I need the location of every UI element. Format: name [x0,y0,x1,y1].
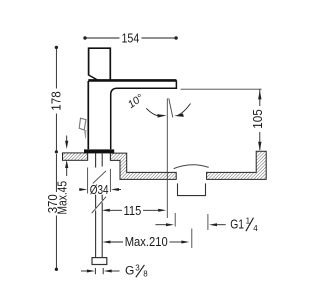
dim 178 [49,46,63,151]
svg-text:G: G [125,264,134,278]
dim G 3/8 (supply) [81,263,148,278]
faucet body and spout [88,80,176,149]
svg-text:Ø34: Ø34 [90,183,109,197]
dim 115 [102,204,166,218]
svg-text:Max.45: Max.45 [56,181,70,215]
dim 154 [83,32,178,46]
dim G1 1/4 (drain) [155,213,258,233]
dim Max.45 [56,136,70,215]
svg-text:3: 3 [135,263,140,272]
dim 370 [46,150,60,271]
svg-text:105: 105 [251,109,265,129]
stream centerline [166,98,168,218]
countertop left slab [63,153,88,160]
svg-text:G1: G1 [230,218,244,232]
mounting hole edges [87,153,89,160]
faucet handle [89,48,111,81]
10 degree label and arc arrows [126,92,191,118]
pipe break slash 1 [93,171,106,184]
svg-text:154: 154 [122,32,140,46]
basin bottom right + right wall [207,151,267,179]
side lever detail (gray) [79,118,86,138]
svg-text:4: 4 [253,224,258,233]
countertop right step (basin left side) [110,153,176,179]
dim Max.210 [102,229,191,250]
dim 105 [181,89,266,151]
drain pop-up dome [174,165,209,169]
drain tailpiece [178,183,206,195]
dim diameter 34 [79,168,121,198]
supply pipes [96,153,103,257]
svg-text:Max.210: Max.210 [125,235,168,249]
svg-text:178: 178 [49,91,63,111]
connection nut [92,258,107,265]
base flange [84,149,114,153]
pipe break slash 2 [92,197,106,214]
svg-text:115: 115 [124,204,142,218]
svg-text:8: 8 [143,269,148,278]
10-degree tilted line [169,98,173,117]
